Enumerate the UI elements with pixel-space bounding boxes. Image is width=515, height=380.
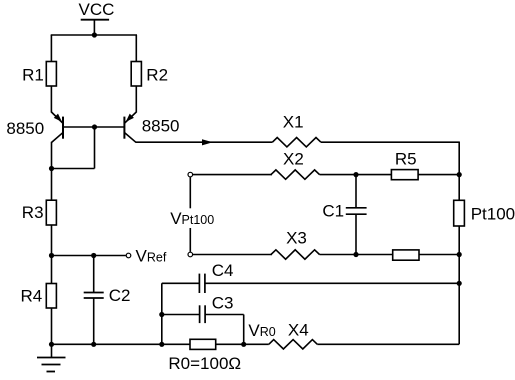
wire bottom rail left [52,343,269,345]
wire right rail [458,142,460,345]
svg-text:X1: X1 [283,113,304,132]
svg-text:VRef: VRef [136,246,167,265]
transistor Q2 (8850 right) [124,112,136,142]
svg-text:R2: R2 [146,65,168,84]
node right rail C4 [457,281,462,286]
wire X1 row right [321,141,459,143]
resistor X1 zigzag [272,138,321,147]
node VRef tap [49,253,54,258]
wire C4 right lead [205,282,459,284]
svg-text:8850: 8850 [6,119,44,138]
wire C3 left lead [162,314,200,316]
svg-text:X4: X4 [288,321,309,340]
wire R3 bottom lead [51,225,53,284]
svg-text:X2: X2 [283,149,304,168]
node right rail X2 [457,172,462,177]
node ground tap [49,342,54,347]
wire R1 top lead [50,35,52,62]
node bottom rail left branch [159,342,164,347]
node C3 left junction [159,312,164,317]
terminal X2 input [188,172,193,177]
wire C2 lower lead [93,298,95,344]
resistor R1 [46,62,56,87]
svg-text:R4: R4 [21,287,43,306]
svg-text:R0=100Ω: R0=100Ω [168,354,241,373]
resistor unlabeled lower [393,250,419,260]
node C3 bottom junction [241,342,246,347]
node right rail X3 [457,252,462,257]
wire X2 right [320,174,392,176]
wire R4 bottom lead [51,308,53,344]
capacitor C3 [200,305,206,323]
svg-text:R1: R1 [22,65,44,84]
wire C4-C3 left vertical [161,283,163,344]
wire R2 top lead [135,35,137,62]
capacitor C4 [199,274,205,293]
svg-text:X3: X3 [286,229,307,248]
wire Q1 collector down [51,142,53,201]
wire X3 left [193,254,272,256]
wire base rail [63,126,124,128]
wire X2 left [193,174,272,176]
wire R2 bottom lead [135,86,137,113]
resistor R2 [131,62,141,87]
resistor R3 [46,200,56,225]
svg-text:VR0: VR0 [248,321,275,340]
wire C3 drop [243,315,245,345]
svg-text:C1: C1 [322,202,344,221]
wire lower box right [419,254,459,256]
wire R1 bottom lead [50,86,52,113]
svg-text:C3: C3 [212,294,234,313]
resistor Pt100 [454,200,465,226]
node X3-C1 junction [353,252,358,257]
wire bottom rail right [317,343,459,345]
node Q1 collector-base tie [49,166,54,171]
power VCC bar symbol [81,19,109,21]
ground [37,344,66,371]
wire terminal link upper [189,177,191,208]
node base junction [92,124,97,129]
node C2 bottom junction [91,342,96,347]
svg-text:Pt100: Pt100 [471,205,515,224]
arrow current direction [202,139,213,145]
wire top rail [51,34,137,36]
wire C2 upper lead [93,256,95,293]
terminal X3 input [188,252,193,257]
svg-text:C2: C2 [109,286,131,305]
wire terminal link lower [189,228,191,252]
capacitor C1 [346,208,367,214]
wire X1 row left [136,141,273,143]
resistor R5 [391,170,418,180]
svg-text:VCC: VCC [79,0,115,19]
svg-text:C4: C4 [212,261,234,280]
svg-text:R5: R5 [395,149,417,168]
resistor R4 [46,284,56,309]
wire C4 left lead [162,282,200,284]
resistor X4 zigzag [269,340,318,349]
wire base tie horizontal [52,168,95,170]
capacitor C2 [84,293,104,299]
svg-text:R3: R3 [22,203,44,222]
node C2 top junction [91,253,96,258]
terminal VRef [126,253,131,258]
wire base tie vertical [94,127,96,169]
node top-rail junction [92,32,97,37]
wire R5 right [418,174,459,176]
wire C1 lower lead [355,214,357,254]
svg-text:8850: 8850 [142,117,180,136]
wire C1 upper lead [355,175,357,208]
node X2-C1 junction [353,172,358,177]
resistor X2 zigzag [271,170,320,179]
wire X3 right [320,254,393,256]
wire VRef row [52,255,126,257]
wire VCC stem [93,20,95,35]
resistor R0 [190,339,216,349]
wire C3 right lead [205,314,244,316]
transistor Q1 (8850 left) [51,112,63,142]
svg-text:VPt100: VPt100 [170,209,214,228]
resistor X3 zigzag [271,250,320,259]
